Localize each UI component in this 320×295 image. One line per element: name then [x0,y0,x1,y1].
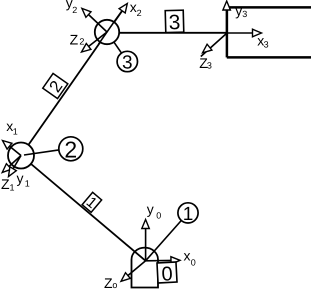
circled joint number 2 [59,136,83,162]
label x2 [130,0,142,18]
svg-text:y: y [235,2,242,18]
link label box 1 [81,192,101,213]
label y1 [17,170,30,189]
axis z3 arrow [201,33,227,57]
line through joint 3 circle [99,20,116,44]
leader to circled 3 [114,42,122,53]
label y3 [235,2,247,19]
svg-text:3: 3 [242,9,247,19]
svg-text:o: o [112,280,117,290]
axis x1 arrow [3,141,22,156]
leader to circled 1 [146,221,182,261]
axis z1 arrow [2,156,21,173]
leader to circled 2 [24,150,59,155]
axis z0 arrow [121,261,146,282]
label x1 [6,118,18,136]
axis y1 arrow [9,156,22,177]
label y0 [147,201,161,220]
axis x2 arrow [116,4,128,20]
label x0 [184,248,196,268]
axis x3 arrow [227,29,262,37]
svg-text:x: x [184,248,191,264]
svg-text:3: 3 [264,40,269,50]
base link 0 [132,248,159,288]
axis y0 arrow [142,220,150,261]
axis x0 arrow [146,257,180,265]
svg-text:3: 3 [168,11,180,34]
link label box 2 [43,73,69,99]
svg-text:1: 1 [10,183,15,193]
label y2 [66,0,77,15]
axis y3 arrow [223,1,231,33]
svg-text:Z: Z [70,32,79,48]
link label box 0 [157,262,177,286]
circled joint number 3 [117,51,137,73]
end effector [227,7,311,57]
svg-text:3: 3 [122,52,133,73]
link label box 3 [165,10,184,34]
link 1 [21,156,146,261]
axis y2 arrow [82,8,107,32]
label Z2 [70,32,85,48]
link 3 [112,32,227,34]
joint 2 circle (frame 1) [8,143,34,169]
svg-text:2: 2 [137,8,142,18]
svg-text:1: 1 [13,126,18,136]
label Z1 [1,176,15,193]
label Z3 [199,55,212,71]
svg-text:0: 0 [161,263,173,286]
svg-text:0: 0 [156,211,161,221]
svg-text:2: 2 [64,136,77,162]
label Z0 [104,275,117,291]
axis z2 arrow [82,32,108,52]
link 2 [21,10,123,156]
svg-text:2: 2 [79,36,84,46]
joint 3 circle (frame 2) [95,20,119,44]
svg-text:3: 3 [207,61,212,71]
svg-text:y: y [17,170,24,186]
label x3 [257,33,268,50]
svg-text:1: 1 [25,178,30,188]
svg-text:0: 0 [191,257,196,267]
circled joint number 1 [178,203,198,225]
svg-text:1: 1 [183,204,194,225]
svg-text:2: 2 [72,5,77,15]
svg-text:y: y [147,201,154,217]
